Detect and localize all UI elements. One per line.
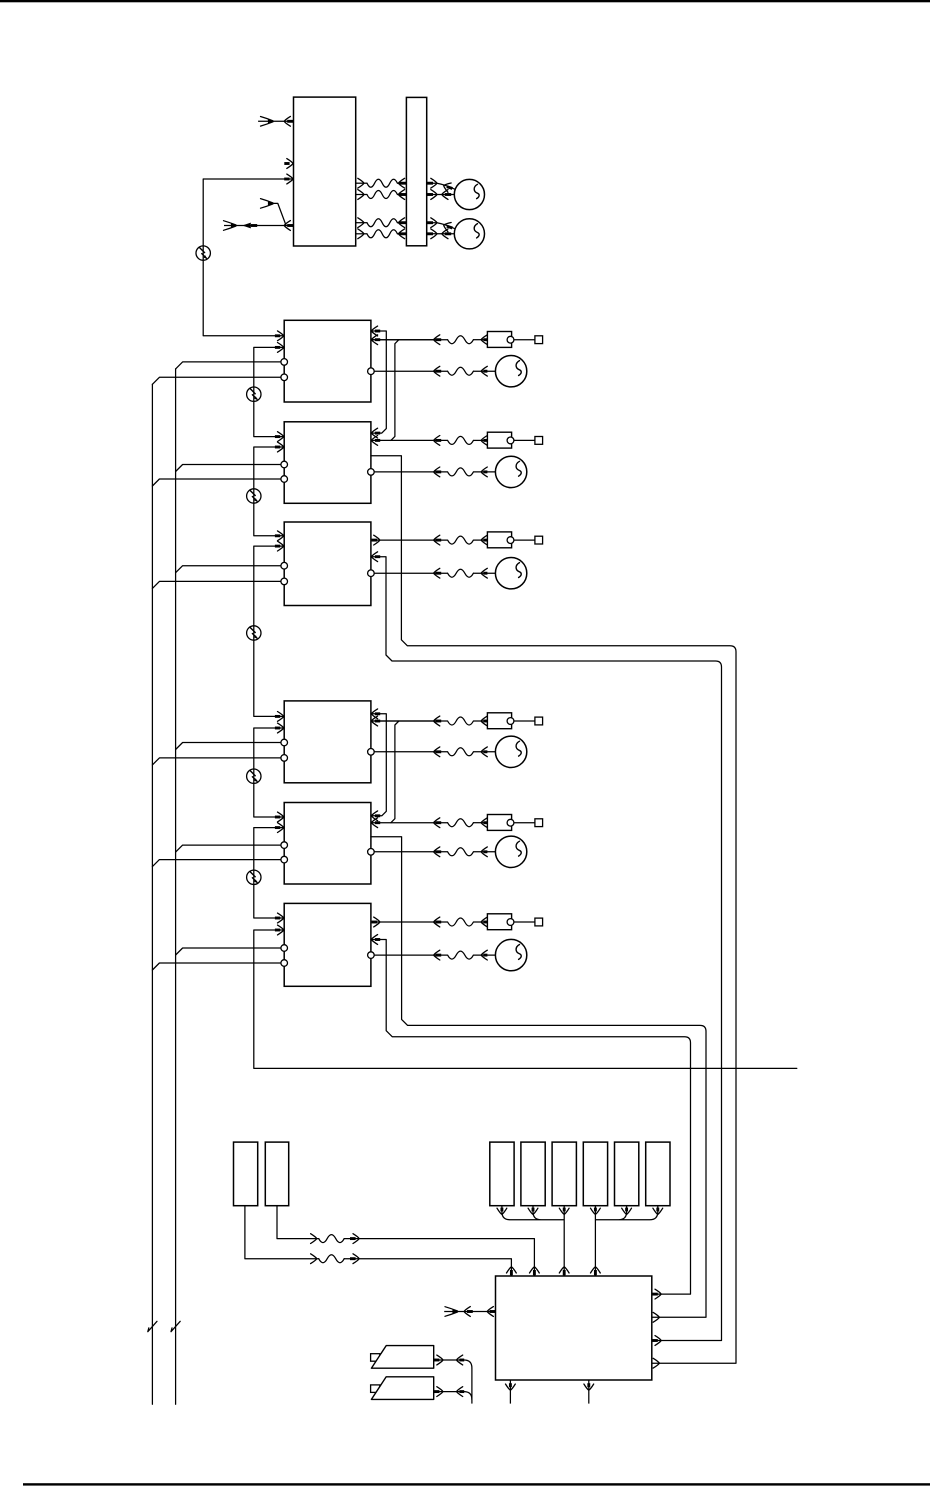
bus B break mark xyxy=(171,1321,180,1331)
power control unit A1 xyxy=(294,97,356,246)
bus wire A xyxy=(151,384,153,1404)
arrow PCB bottom pin1 xyxy=(506,1384,516,1390)
wire J5 to terminal xyxy=(514,822,535,824)
driver unit U3 xyxy=(284,422,371,504)
wire U6 motor row xyxy=(371,851,448,853)
pin circle U5 c1 xyxy=(281,739,288,746)
sensor bus wire xyxy=(471,1368,473,1404)
terminal T4 xyxy=(535,717,543,725)
wire U5-U6 pinB link xyxy=(391,721,399,823)
fuse F5 xyxy=(615,1142,639,1206)
diag arrow at motor M1 xyxy=(442,181,451,192)
driver unit U6 xyxy=(284,803,371,885)
wire pinB row xyxy=(371,339,434,341)
pin circle U3 c1 xyxy=(281,461,288,468)
coil L3 connector row xyxy=(448,536,474,544)
arrow at U6 pin1 xyxy=(275,816,280,819)
pin circle U6 c1 xyxy=(281,842,288,849)
driver unit U5 xyxy=(284,701,371,783)
fuse F3 lead arrow xyxy=(559,1208,569,1214)
wire U6 c1 to bus B xyxy=(176,845,285,852)
wire U5 c1 to bus B xyxy=(176,743,285,750)
direction arrow PCB input xyxy=(464,1307,470,1317)
arrow at plug J1 xyxy=(481,335,487,345)
pin circle U5 cR xyxy=(368,749,375,756)
main PCB A2 xyxy=(496,1276,652,1380)
arrow PCB bottom pin2 xyxy=(584,1384,594,1390)
fuse F6 lead arrow xyxy=(653,1208,663,1214)
arrow at motor M7 xyxy=(481,847,487,857)
wire U5 c2 to bus A xyxy=(152,758,284,765)
wire U5 motor row xyxy=(371,751,448,753)
terminal T5 xyxy=(535,819,543,827)
row2 out arrow xyxy=(358,190,364,200)
arrow on motor row U2 xyxy=(434,366,440,376)
plug J4 xyxy=(487,713,511,729)
pin circle U6 c2 xyxy=(281,856,288,863)
relay K1 xyxy=(234,1142,258,1206)
terminal T6 xyxy=(535,918,543,926)
arrow at U3 pin1 xyxy=(275,435,280,438)
pin circle U7 cR xyxy=(368,952,375,959)
diag arrow out of X1 xyxy=(427,221,433,224)
arrow at plug J3 xyxy=(481,535,487,545)
arrow on S1 wire xyxy=(457,1355,463,1365)
A1 pin2 stub arrow xyxy=(284,162,289,165)
coil row2 xyxy=(367,191,397,199)
arrow on connector row U2 xyxy=(434,335,440,345)
arrow at motor M4 xyxy=(481,467,487,477)
fuse F5 lead arrow xyxy=(622,1208,632,1214)
wire U3 motor row xyxy=(371,471,448,473)
fuse F4 xyxy=(583,1142,607,1206)
wire J1 to terminal xyxy=(514,339,535,341)
wire J6 to terminal xyxy=(514,921,535,923)
coil motor row 6 xyxy=(448,951,474,959)
plug J1 pin circle xyxy=(507,336,514,343)
pin circle U4 c2 xyxy=(281,578,288,585)
wire sensor S1 xyxy=(434,1360,472,1368)
wire U2-U3 pinB link xyxy=(391,340,399,441)
pin circle U2 c2 xyxy=(281,374,288,381)
wire A1 row2 to X1 xyxy=(356,194,367,196)
arrow at U1 pin1 xyxy=(275,334,280,337)
terminal T2 xyxy=(535,437,543,445)
wire U7 c2 to bus A xyxy=(152,963,284,970)
arrow PCB right pin2 xyxy=(653,1312,659,1322)
sheet sensor S2 xyxy=(371,1385,380,1393)
plug J1 xyxy=(487,332,511,348)
wire A1 row3 to X1 xyxy=(356,222,367,224)
wire X1 diag row to motor M1 xyxy=(427,183,456,189)
arrow out of S2 xyxy=(434,1390,439,1393)
surge absorber FL5 xyxy=(247,769,261,783)
plug J3 pin circle xyxy=(507,537,514,544)
arrow at U7 pin1 xyxy=(275,917,280,920)
plug J3 xyxy=(487,532,511,548)
coil motor row 5 xyxy=(448,848,474,856)
arrow out of S1 xyxy=(434,1359,439,1362)
fuse F2 lead arrow xyxy=(528,1208,538,1214)
bottom border rule xyxy=(23,1483,930,1485)
external source arrow PCB xyxy=(445,1307,458,1317)
arrow at U6 pB xyxy=(375,821,380,824)
fuse F3 xyxy=(552,1142,576,1206)
arrow at U3 pin2 xyxy=(275,446,280,449)
fuse F6 xyxy=(646,1142,670,1206)
plug J6 xyxy=(487,914,511,930)
external source arrow pin4 xyxy=(261,199,274,209)
chain wire segment 1 xyxy=(254,347,284,436)
pin5 arrow at A1 xyxy=(287,224,293,227)
arrow at U3 pB xyxy=(375,439,380,442)
arrow at motor M1 xyxy=(442,190,448,200)
surge absorber FL6 xyxy=(247,870,261,884)
arrow at U5 pA xyxy=(375,712,380,715)
driver unit U4 xyxy=(284,522,371,606)
arrow at motor M2 xyxy=(442,229,448,239)
fuse F1 lead arrow xyxy=(497,1208,507,1214)
motor M3 xyxy=(495,356,526,387)
fuse bus left xyxy=(502,1206,564,1276)
wire U2 motor row xyxy=(371,370,448,372)
row4 arrow at X1 xyxy=(399,232,406,235)
plug J5 pin circle xyxy=(507,819,514,826)
arrow PCB right pin4 xyxy=(653,1358,659,1368)
fuse F4 lead arrow xyxy=(591,1208,601,1214)
external source arrow pin1 xyxy=(261,117,274,127)
external source arrow pin5 xyxy=(224,221,237,231)
row2 arrow at X1 xyxy=(399,193,406,196)
bus A break mark xyxy=(148,1321,157,1331)
pin circle U3 c2 xyxy=(281,476,288,483)
coil L6 connector row xyxy=(448,918,474,926)
chain wire segment 3 xyxy=(254,546,284,716)
wire U6 pinC to PCB xyxy=(371,837,706,1318)
plug J6 pin circle xyxy=(507,919,514,926)
arrow at motor M8 xyxy=(481,950,487,960)
arrow on motor row U4 xyxy=(434,568,440,578)
arrow at plug J5 xyxy=(481,818,487,828)
wire K1 to PCB xyxy=(245,1206,512,1276)
arrow on S2 wire xyxy=(457,1387,463,1397)
chain wire segment 2 xyxy=(254,447,284,536)
pin1 arrow at A1 xyxy=(287,120,293,123)
arrow at U4 pin2 xyxy=(275,545,280,548)
wire sensor S2 xyxy=(434,1392,472,1400)
surge absorber FL1 xyxy=(196,246,210,260)
wire U7 c1 to bus B xyxy=(176,948,285,955)
out arrow U7 pA xyxy=(372,921,378,924)
arrow at motor M5 xyxy=(481,568,487,578)
arrow at motor M3 xyxy=(481,366,487,376)
arrow at U2 pin2 xyxy=(275,346,280,349)
fan motor M2 xyxy=(454,219,484,249)
wire A1 pin3 xyxy=(203,178,293,180)
wire X1 to motor M1 xyxy=(427,194,455,196)
coil on K1 wire xyxy=(319,1255,345,1263)
pin circle U7 c1 xyxy=(281,945,288,952)
arrow on connector row U3 xyxy=(434,436,440,446)
wire U7 connector row xyxy=(371,921,448,923)
arrow at U7 pB xyxy=(375,938,380,941)
arrow at U6 pin2 xyxy=(275,826,280,829)
terminal T3 xyxy=(535,536,543,544)
chain wire segment 4 xyxy=(254,728,284,817)
wire U3 connector row xyxy=(371,439,448,441)
surge absorber FL3 xyxy=(247,489,261,503)
arrow at PCB top pin2 xyxy=(530,1267,540,1273)
arrow on motor row U5 xyxy=(434,747,440,757)
arrow at plug J4 xyxy=(481,716,487,726)
wire U3 c1 to bus B xyxy=(176,465,285,472)
wire U3 c2 to bus A xyxy=(152,479,284,486)
terminal strip X1 xyxy=(406,97,426,245)
arrow at U4 pB xyxy=(375,555,380,558)
coil row1 xyxy=(367,179,397,187)
wire U6 connector row xyxy=(371,822,448,824)
wire U7 pinB to PCB xyxy=(371,940,691,1295)
direction arrow pin5 xyxy=(242,223,251,229)
fuse F2 xyxy=(521,1142,545,1206)
pin circle U5 c2 xyxy=(281,755,288,762)
arrow2 on K1 wire xyxy=(350,1257,356,1260)
pin circle U4 c1 xyxy=(281,562,288,569)
wire X1 to motor M2 xyxy=(427,233,455,235)
plug J2 xyxy=(487,432,511,448)
motor M4 xyxy=(495,456,526,487)
motor M8 xyxy=(495,939,526,970)
arrow at motor M6 xyxy=(481,747,487,757)
arrow at U6 pA xyxy=(375,814,380,817)
coil L1 connector row xyxy=(448,336,474,344)
driver unit U7 xyxy=(284,903,371,986)
sheet sensor S1 xyxy=(371,1354,380,1362)
motor M6 xyxy=(495,736,526,767)
relay K2 xyxy=(265,1142,288,1206)
coil L2 connector row xyxy=(448,436,474,444)
coil row3 xyxy=(367,219,397,227)
arrow on motor row U3 xyxy=(434,467,440,477)
motor M7 xyxy=(495,836,526,867)
wire A1 pin5 xyxy=(224,225,294,227)
arrow at plug J6 xyxy=(481,917,487,927)
coil motor row 1 xyxy=(448,367,474,375)
wire U6 c2 to bus A xyxy=(152,860,284,867)
surge absorber FL2 xyxy=(247,387,261,401)
wire A1 row1 to X1 xyxy=(356,182,367,184)
arrow on K2 wire xyxy=(311,1234,317,1244)
wire A1 to U1 xyxy=(203,179,284,336)
pin circle U6 cR xyxy=(368,849,375,856)
arrow out of X1 row2 xyxy=(427,193,433,196)
wire A1 pin1 xyxy=(258,120,293,122)
wire U3 pinC to PCB xyxy=(371,456,736,1363)
arrow at U5 pin2 xyxy=(275,727,280,730)
arrow at U5 pB xyxy=(375,720,380,723)
terminal T1 xyxy=(535,336,543,344)
row1 arrow at X1 xyxy=(399,182,406,185)
wire U4 connector row xyxy=(371,539,448,541)
arrow at U3 pA xyxy=(375,432,380,435)
row3 out arrow xyxy=(358,218,364,228)
wire input to PCB xyxy=(444,1311,495,1313)
wire K2 to PCB xyxy=(277,1206,534,1276)
wire U5 connector row xyxy=(371,720,448,722)
arrow PCB right pin1 xyxy=(652,1293,658,1296)
arrow on connector row U4 xyxy=(434,535,440,545)
chain wire U7 to bus line xyxy=(254,930,797,1068)
coil L5 connector row xyxy=(448,819,474,827)
arrow at PCB top pin3 xyxy=(559,1267,569,1273)
plug J5 xyxy=(487,815,511,831)
coil motor row 2 xyxy=(448,468,474,476)
wire U5-U6 pinA link xyxy=(371,714,386,816)
arrow at U4 pin1 xyxy=(275,534,280,537)
fuse bus right xyxy=(595,1206,657,1276)
wire J4 to terminal xyxy=(514,720,535,722)
wire U2 c1 to bus B xyxy=(176,362,285,369)
wire U2 c2 to bus A xyxy=(152,377,284,384)
arrow at PCB top pin1 xyxy=(507,1267,517,1273)
arrow at plug J2 xyxy=(481,436,487,446)
wire U4 motor row xyxy=(371,572,448,574)
pin circle U2 cR xyxy=(368,368,375,375)
arrow on motor row U7 xyxy=(434,950,440,960)
wire A1 pin4 jog xyxy=(274,203,286,225)
row1 out arrow xyxy=(358,178,364,188)
wire pinB row xyxy=(371,720,434,722)
pin3 arrow at A1 xyxy=(284,178,289,181)
fan motor M1 xyxy=(454,179,484,209)
arrow2 on K2 wire xyxy=(350,1237,356,1240)
wire A1 row4 to X1 xyxy=(356,233,367,235)
wire U4 pinB to PCB xyxy=(371,557,722,1341)
arrow on connector row U5 xyxy=(434,716,440,726)
coil L4 connector row xyxy=(448,717,474,725)
arrow at PCB top pin4 xyxy=(591,1267,601,1273)
driver unit U2 xyxy=(284,320,371,402)
wire U2 connector row xyxy=(371,339,448,341)
pin circle U3 cR xyxy=(368,469,375,476)
arrow on connector row U6 xyxy=(434,818,440,828)
arrow out of X1 row4 xyxy=(427,232,433,235)
wire J3 to terminal xyxy=(514,539,535,541)
chain wire segment 5 xyxy=(254,828,284,918)
diag arrow at motor M2 xyxy=(442,221,451,232)
diag arrow out of X1 xyxy=(427,182,433,185)
arrow on K1 wire xyxy=(311,1254,317,1264)
wire U4 c1 to bus B xyxy=(176,566,285,573)
pin circle U4 cR xyxy=(368,570,375,577)
top border rule xyxy=(0,0,930,2)
coil motor row 3 xyxy=(448,569,474,577)
arrow at U2 pA xyxy=(375,330,380,333)
pin circle U7 c2 xyxy=(281,960,288,967)
surge absorber FL4 xyxy=(247,626,261,640)
arrow at U2 pB xyxy=(375,338,380,341)
motor M5 xyxy=(495,558,526,589)
wire X1 diag row to motor M2 xyxy=(427,223,456,229)
arrow at U7 pin2 xyxy=(275,929,280,932)
plug J4 pin circle xyxy=(507,718,514,725)
row3 arrow at X1 xyxy=(399,221,406,224)
arrow PCB right pin3 xyxy=(652,1339,658,1342)
row4 out arrow xyxy=(358,229,364,239)
wire PCB bottom pin2 xyxy=(588,1380,590,1404)
bus wire B xyxy=(175,369,177,1404)
fuse F1 xyxy=(490,1142,514,1206)
coil motor row 4 xyxy=(448,748,474,756)
wire PCB bottom pin1 xyxy=(509,1380,511,1404)
wire U4 c2 to bus A xyxy=(152,581,284,588)
wire U2-U3 pinA link xyxy=(371,331,386,433)
coil on K2 wire xyxy=(319,1235,345,1243)
arrow at U5 pin1 xyxy=(275,715,280,718)
coil row4 xyxy=(367,230,397,238)
arrow on motor row U6 xyxy=(434,847,440,857)
plug J2 pin circle xyxy=(507,437,514,444)
arrow on connector row U7 xyxy=(434,917,440,927)
pin circle U2 c1 xyxy=(281,359,288,366)
wire U7 motor row xyxy=(371,954,448,956)
wire J2 to terminal xyxy=(514,439,535,441)
out arrow U4 pA xyxy=(372,539,378,542)
arrow at PCB left pin xyxy=(490,1310,496,1313)
